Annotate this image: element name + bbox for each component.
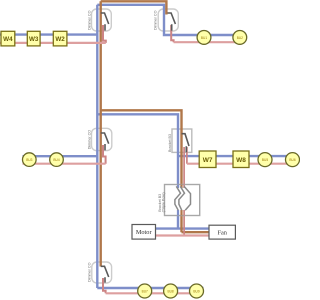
svg-text:BU7: BU7 <box>142 289 148 293</box>
switch S4 lever <box>182 134 189 153</box>
wire switched red from S6 <box>103 278 106 293</box>
svg-text:Fan: Fan <box>217 230 227 237</box>
wire live brown top elbow to S2 <box>101 1 167 14</box>
lamp BU6 (middle-right) <box>286 153 300 167</box>
switch S5 wire stubs top <box>177 185 179 189</box>
switch S1 Dimmer CO (top-left) body <box>92 9 112 31</box>
wire neutral blue branch right <box>97 114 178 228</box>
svg-text:Dimmer CO: Dimmer CO <box>87 130 91 150</box>
wire live brown fan row <box>182 231 210 233</box>
lamp BU8 (bottom) <box>164 284 178 298</box>
wire switched red motor-fan row <box>156 234 210 236</box>
lamp BU4 (middle-left) <box>50 153 64 167</box>
fan F1 <box>209 225 235 239</box>
wire switched red from S2 <box>171 25 173 42</box>
svg-text:Dimmer CO: Dimmer CO <box>88 262 92 282</box>
wire neutral blue mid-left row <box>23 155 98 157</box>
lamp BU9 (bottom) <box>190 284 204 298</box>
svg-text:BU8: BU8 <box>167 289 173 293</box>
svg-text:BU4: BU4 <box>53 158 59 162</box>
switch S5 Bracket B3 triple pole body <box>165 185 200 216</box>
lamp BU1 (top-right) <box>197 31 211 45</box>
junction box W7 <box>199 151 216 168</box>
switch S6 lever <box>101 266 109 282</box>
svg-text:BU2: BU2 <box>237 36 243 40</box>
motor M1 <box>132 225 156 240</box>
svg-text:W4: W4 <box>3 36 13 43</box>
wire switched red bottom row <box>106 292 204 294</box>
switch S1 lever <box>101 13 109 31</box>
svg-text:Dimmer CO: Dimmer CO <box>154 10 158 30</box>
switch S2 lever <box>168 13 176 31</box>
svg-text:BU3: BU3 <box>26 158 32 162</box>
svg-text:W3: W3 <box>29 36 39 43</box>
switch S5 levers <box>175 186 181 210</box>
svg-text:Dimmer CO: Dimmer CO <box>87 10 91 30</box>
junction box W4 <box>1 31 15 46</box>
wire live brown branch right <box>101 110 182 232</box>
lamp BU3 (middle-left) <box>23 153 37 167</box>
wire neutral blue top elbow to S2 <box>97 5 240 35</box>
switch S3 lever <box>101 133 109 150</box>
wire switched red mid-left row <box>23 163 106 165</box>
wire live brown trunk vertical <box>99 1 101 266</box>
svg-text:W8: W8 <box>236 157 246 164</box>
wire switched red top-right row <box>174 41 240 43</box>
wire neutral blue row2 <box>178 155 293 157</box>
svg-text:BU6: BU6 <box>289 158 295 162</box>
svg-text:BU1: BU1 <box>201 36 207 40</box>
wire switched red row2 <box>187 163 293 165</box>
svg-text:Motor: Motor <box>136 229 153 236</box>
lamp BU2 (top-right) <box>233 31 247 45</box>
svg-text:W7: W7 <box>203 157 213 164</box>
junction box W2 <box>53 31 67 46</box>
svg-text:BU9: BU9 <box>193 289 199 293</box>
svg-text:(Triple Pole): (Triple Pole) <box>162 192 166 212</box>
switch S6 Dimmer CO (bottom) body <box>92 262 112 283</box>
wire neutral blue bottom row <box>97 287 203 289</box>
switch S5 wire stubs bottom <box>177 210 179 216</box>
switch S4 Bracket B3 body <box>172 129 192 152</box>
svg-text:Bracket B3: Bracket B3 <box>168 134 172 152</box>
wire switched red from S1 <box>103 25 106 43</box>
wire switched red row1 <box>0 42 106 44</box>
wire neutral blue row1 <box>0 33 97 35</box>
wire neutral blue trunk vertical <box>96 5 98 288</box>
wire switched red from S3 <box>103 145 106 164</box>
junction box W3 <box>27 31 40 46</box>
junction box W8 <box>233 151 249 168</box>
wire switched red S4 output 1 down to fan row <box>183 147 185 236</box>
switch S3 Dimmer CO (middle-left) body <box>92 128 112 150</box>
wire switched red S4 output 2 down to row2 <box>186 147 188 164</box>
lamp BU7 (bottom) <box>138 284 152 298</box>
wire neutral blue motor-fan row <box>156 227 210 229</box>
lamp BU5 (middle-right) <box>258 153 272 167</box>
svg-text:BU5: BU5 <box>262 158 268 162</box>
svg-text:W2: W2 <box>55 36 65 43</box>
switch S2 Dimmer CO (top-right) body <box>158 9 178 31</box>
